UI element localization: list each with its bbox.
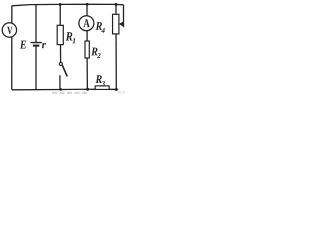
resistor R2 body: [85, 41, 89, 58]
wire rheostat branch upper: [115, 4, 117, 14]
node: top junction of R1 branch: [59, 3, 62, 6]
label R2: [91, 48, 97, 56]
wire right side (wiper lead): [123, 5, 125, 27]
node: top junction of rheostat branch: [115, 3, 118, 6]
wire bottom rail left: [12, 88, 95, 91]
node: bottom junction of rheostat branch: [115, 88, 118, 91]
label R4: [96, 22, 102, 30]
wire rheostat to bottom: [115, 34, 117, 90]
label R4 subscript 4: [101, 28, 104, 33]
resistor R3 body: [95, 86, 109, 90]
battery E negative plate (short thick): [33, 45, 39, 47]
label R1 subscript 1: [72, 38, 75, 43]
rheostat R4 body: [113, 14, 119, 34]
label R2 subscript 2: [97, 53, 101, 58]
wire top rail: [12, 4, 124, 6]
label r (internal resistance): [42, 43, 46, 48]
faint watermark remnant right: [118, 91, 125, 93]
label E (emf): [20, 41, 26, 49]
label R3: [95, 75, 101, 83]
wire R1 branch upper: [59, 4, 61, 25]
ammeter A: [79, 16, 94, 31]
wire left side lower: [11, 37, 13, 90]
resistor R1 body: [57, 25, 63, 44]
wire R2 to bottom: [86, 58, 88, 89]
switch S pivot circle: [59, 62, 62, 65]
node: top junction of ammeter branch: [86, 3, 89, 6]
node: bottom junction of R2 branch: [86, 88, 89, 91]
label R1: [66, 32, 73, 40]
wire left side upper (to voltmeter): [11, 6, 13, 24]
wire battery branch lower: [35, 46, 37, 90]
battery E positive plate (long): [30, 42, 41, 44]
label A (ammeter): [83, 19, 89, 27]
rheostat R4 wiper arrowhead: [119, 22, 123, 26]
label R3 subscript 3: [101, 81, 104, 86]
wire bottom rail right of R3: [109, 88, 117, 90]
node: bottom junction of switch branch: [59, 88, 62, 91]
wire ammeter branch upper: [86, 4, 88, 15]
wire ammeter to R2: [86, 31, 88, 41]
voltmeter V: [2, 23, 16, 37]
label V (voltmeter): [7, 27, 12, 34]
wire battery branch upper: [35, 5, 37, 42]
wire switch to bottom: [59, 75, 61, 89]
faint watermark remnant: [52, 92, 88, 94]
switch S blade: [62, 65, 67, 76]
wire R1 to switch: [60, 45, 62, 63]
